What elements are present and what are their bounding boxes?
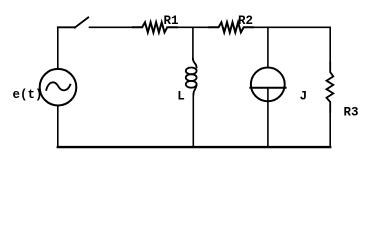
current source J (circle with horizontal bar) (250, 68, 285, 147)
wire right vertical lower (R3 to bottom rail) (329, 112, 331, 147)
label J (300, 89, 308, 103)
svg-text:L: L (177, 89, 185, 103)
label R2 (238, 14, 253, 28)
wire top rail between R1 and R2 (177, 26, 210, 28)
label L (177, 89, 185, 103)
label R3 (344, 106, 359, 120)
wire top rail left segment (switch right terminal to R1) (90, 26, 134, 28)
label e(t) (13, 88, 43, 102)
resistor R3 (vertical zigzag on right wire) (327, 63, 334, 113)
node junction to J branch (267, 27, 269, 67)
resistor R2 (zigzag on top rail) (209, 22, 253, 32)
wire right vertical upper (top corner to R3) (329, 27, 331, 62)
resistor R1 (zigzag on top rail) (133, 22, 177, 32)
wire left vertical (top rail corner down to source) (57, 27, 59, 69)
wire top rail between R2 and right corner (253, 26, 330, 28)
label R1 (164, 14, 179, 28)
inductor L (coil of 3 loops) (186, 59, 197, 95)
wire left vertical lower (source to bottom rail) (57, 106, 59, 147)
node junction to L branch (192, 27, 194, 59)
svg-text:J: J (300, 89, 308, 103)
wire L branch lower (coil to bottom rail) (192, 95, 194, 147)
svg-text:R1: R1 (164, 14, 179, 28)
switch (top-left, open blade) (58, 17, 88, 27)
svg-text:R3: R3 (344, 106, 359, 120)
svg-text:e(t): e(t) (13, 88, 43, 102)
voltage source e(t) (AC source circle with sine) (40, 69, 77, 106)
wire bottom rail (58, 146, 330, 148)
svg-text:R2: R2 (238, 14, 253, 28)
